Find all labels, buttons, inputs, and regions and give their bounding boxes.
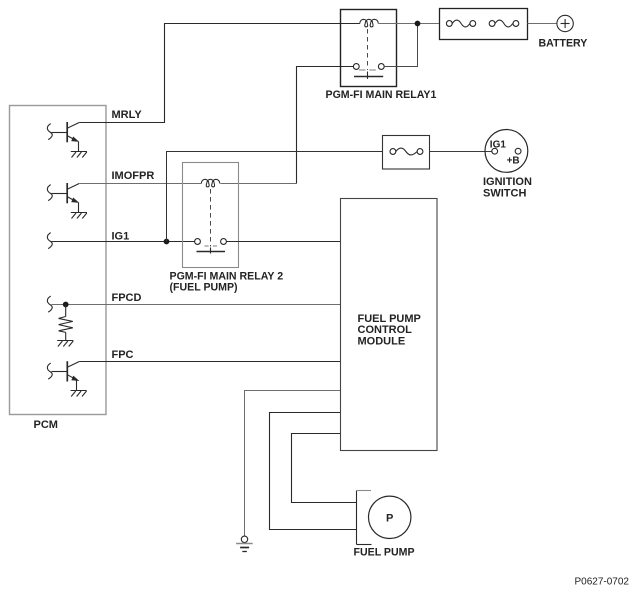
svg-text:(FUEL PUMP): (FUEL PUMP)	[170, 282, 238, 294]
wire relay2 to fuel pump control module	[226, 241, 340, 243]
relay1 movable contact bar	[354, 76, 383, 78]
resistor R1	[59, 305, 73, 341]
svg-text:FUEL PUMP: FUEL PUMP	[358, 313, 421, 325]
relay2 contact gap dashes	[205, 245, 218, 247]
fuel pump motor M1	[369, 496, 411, 538]
fuse F3	[390, 148, 423, 155]
svg-text:CONTROL: CONTROL	[358, 324, 413, 336]
wire IG1 (PCM to relay2 switch)	[52, 241, 195, 243]
ground (chassis) under Q2	[71, 213, 87, 219]
svg-text:PGM-FI MAIN RELAY1: PGM-FI MAIN RELAY1	[326, 89, 437, 101]
svg-text:PCM: PCM	[34, 419, 58, 431]
PCM box	[10, 106, 107, 415]
svg-text:FPC: FPC	[112, 349, 134, 361]
ground (chassis) under R1	[57, 341, 73, 347]
fuse F2	[489, 20, 519, 27]
fuse box (ignition feed)	[383, 136, 430, 170]
node IG1 junction	[164, 239, 170, 245]
wire FPC (PCM to fuel pump control module)	[79, 361, 340, 363]
battery terminal symbol	[557, 15, 573, 31]
wire IMOFPR (PCM through relay2 coil to riser)	[79, 183, 296, 185]
relay1 switch contact B	[378, 64, 384, 70]
relay1 coil L1	[360, 19, 379, 27]
svg-text:SWITCH: SWITCH	[483, 188, 526, 200]
ignition switch terminal IG1	[492, 148, 498, 154]
fuel pump control module box U1	[341, 199, 438, 451]
wire MRLY (PCM to relay1 coil)	[79, 24, 360, 123]
wire riser to relay1 switch	[297, 67, 354, 184]
ground (chassis) under Q3	[71, 391, 87, 397]
ignition switch body	[485, 130, 528, 173]
wire FPCD (PCM to fuel pump control module)	[52, 304, 341, 306]
fuel pump housing bracket	[357, 491, 372, 545]
wire module ground lead	[245, 391, 341, 537]
node battery feed junction	[415, 21, 421, 27]
connector break FPCD	[47, 296, 52, 312]
relay2 coil-to-contact dashed link	[210, 189, 212, 247]
svg-text:IGNITION: IGNITION	[483, 176, 532, 188]
wire fuse to ignition switch	[430, 151, 492, 153]
svg-text:P0627-0702: P0627-0702	[575, 577, 630, 588]
wire IG1 riser to fuse	[167, 152, 383, 242]
wire relay1 switch output to battery node	[384, 24, 417, 67]
relay1 contact gap dashes	[359, 69, 378, 71]
svg-text:IMOFPR: IMOFPR	[112, 170, 155, 182]
svg-text:IG1: IG1	[490, 139, 507, 150]
wire module to fuel pump (upper lead)	[292, 434, 357, 503]
svg-text:MRLY: MRLY	[112, 109, 143, 121]
svg-text:IG1: IG1	[112, 231, 130, 243]
wire fuse box to battery	[528, 23, 557, 25]
relay2 movable contact bar	[197, 251, 226, 253]
ground (chassis) under Q1	[71, 152, 87, 158]
node FPCD junction	[63, 302, 69, 308]
svg-text:+B: +B	[507, 155, 520, 166]
relay1 switch contact A	[353, 64, 359, 70]
svg-text:FUEL PUMP: FUEL PUMP	[354, 546, 415, 558]
svg-text:P: P	[386, 513, 393, 525]
ignition switch terminal +B	[515, 148, 521, 154]
svg-text:FPCD: FPCD	[112, 292, 142, 304]
wire relay1 coil to fuse box	[378, 23, 439, 25]
relay box PGM-FI MAIN RELAY1	[341, 10, 397, 87]
relay2 switch contact B	[221, 239, 227, 245]
relay1 coil-to-contact dashed link	[367, 29, 369, 70]
connector break IG1	[47, 233, 52, 249]
transistor Q3 (FPC driver)	[47, 361, 79, 390]
transistor Q1 (MRLY driver)	[47, 122, 79, 152]
fuse box (battery feed)	[440, 9, 528, 40]
svg-text:BATTERY: BATTERY	[539, 38, 588, 50]
wire module to fuel pump (lower lead)	[270, 413, 357, 530]
relay2 switch contact A	[195, 239, 201, 245]
relay2 coil L2	[201, 179, 219, 187]
fuse F1	[446, 20, 475, 27]
svg-text:MODULE: MODULE	[358, 335, 406, 347]
FUEL PUMP CONTROL MODULE label	[358, 313, 421, 348]
ground G1 (circle type)	[236, 536, 253, 551]
transistor Q2 (IMOFPR driver)	[47, 183, 79, 213]
relay box PGM-FI MAIN RELAY 2	[183, 163, 239, 268]
